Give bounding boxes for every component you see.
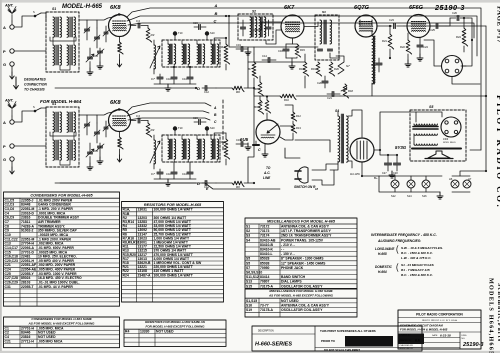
bypass capacitor C11	[187, 77, 193, 79]
svg-text:S2: S2	[246, 229, 250, 233]
svg-text:S5: S5	[246, 257, 250, 261]
tie wire x248	[247, 47, 249, 88]
svg-text:H-660-SERIES: H-660-SERIES	[255, 342, 292, 348]
capacitor C15 top	[199, 25, 201, 30]
dial lamp I1	[391, 180, 399, 188]
grid resistor R3	[146, 123, 151, 137]
ground lead from G	[11, 161, 13, 167]
wires inside speaker box	[416, 112, 442, 117]
svg-text:6K8: 6K8	[110, 5, 121, 11]
bypass capacitor C7	[157, 172, 163, 174]
svg-text:R12: R12	[296, 114, 301, 118]
svg-text:S16: S16	[422, 194, 427, 198]
resistor R6 horizontal	[232, 86, 244, 91]
svg-text:S19: S19	[246, 308, 252, 312]
svg-text:S1,S15: S1,S15	[246, 299, 257, 303]
svg-text:91002-2: 91002-2	[21, 229, 34, 233]
svg-text:83414: 83414	[260, 275, 270, 279]
svg-text:S12: S12	[391, 194, 396, 198]
title block frame	[398, 310, 481, 349]
bus line B row2	[127, 111, 209, 116]
svg-text:DESIGNATES: DESIGNATES	[24, 78, 47, 82]
rectifier tube V5 5Y3G	[350, 138, 374, 162]
svg-text:R1: R1	[221, 45, 225, 49]
speaker plug socket P1	[442, 56, 463, 77]
svg-text:C11: C11	[182, 77, 187, 81]
svg-text:PILOT RADIO CO.: PILOT RADIO CO.	[495, 95, 500, 209]
svg-text:6K7: 6K7	[284, 5, 295, 11]
right edge vertical to lamps	[485, 26, 487, 171]
bus line A row1	[127, 8, 458, 17]
tie wire x254 row1 D to row2	[248, 88, 254, 183]
wires to speaker box	[404, 25, 486, 27]
tuning eye tube 6U5	[256, 120, 280, 144]
wire switch to coil box	[41, 13, 46, 20]
terminal A	[10, 120, 14, 124]
ground lead from G	[11, 66, 13, 72]
IF trimmer T10	[173, 31, 177, 35]
svg-text:PHONE JACK: PHONE JACK	[281, 266, 304, 270]
svg-text:C16: C16	[278, 49, 283, 53]
band switch contact S1	[34, 15, 37, 18]
svg-text:NOT USED: NOT USED	[156, 329, 174, 333]
wires around plug	[424, 40, 442, 66]
svg-text:23487-A: 23487-A	[138, 273, 152, 277]
capacitor C21	[332, 92, 334, 97]
svg-text:RESISTORS FOR MODEL-H-664 SA: RESISTORS FOR MODEL-H-664 SAME AS	[145, 320, 205, 324]
antenna/RF coil assembly box S1	[46, 12, 79, 72]
right edge bus wires	[458, 8, 481, 150]
svg-text:TO CHASSIS: TO CHASSIS	[24, 88, 45, 92]
bus line D with capacitor C12	[55, 182, 196, 184]
svg-text:S: S	[33, 10, 35, 14]
svg-text:R7: R7	[248, 67, 252, 71]
terminal G	[10, 62, 14, 66]
svg-text:S2: S2	[252, 10, 256, 14]
svg-text:22055-T: 22055-T	[21, 285, 35, 289]
wire 6K7 plate	[304, 22, 318, 27]
trimmer C8 small	[104, 127, 108, 129]
svg-text:C25: C25	[430, 28, 435, 32]
speaker socket	[441, 117, 461, 137]
wire D to R6	[216, 182, 232, 184]
svg-text:DWG: DWG	[462, 335, 467, 337]
dashed partition line	[222, 100, 224, 152]
svg-text:MISCELLANEOUS FOR MODEL H-6: MISCELLANEOUS FOR MODEL H-665	[267, 219, 336, 223]
speaker pedestal	[428, 151, 450, 158]
svg-text:S10: S10	[210, 31, 215, 35]
wire coils to grid cap	[79, 115, 97, 123]
svg-text:R4: R4	[125, 329, 129, 333]
plate coupling capacitor C4	[131, 25, 137, 27]
svg-text:S13: S13	[246, 280, 252, 284]
svg-text:C10: C10	[166, 77, 171, 81]
svg-text:ANTENNA COIL & CAN ASS'Y: ANTENNA COIL & CAN ASS'Y	[281, 225, 330, 229]
svg-text:R16: R16	[299, 67, 304, 71]
svg-text:H-664: H-664	[378, 270, 387, 274]
wire S2 to 6K7 grid	[266, 30, 281, 44]
svg-text:73172: 73172	[260, 225, 270, 229]
resistor R8	[258, 82, 263, 96]
mid connector wires	[248, 61, 305, 63]
terminal G	[10, 157, 14, 161]
dwg number box	[459, 332, 461, 349]
transformer secondary leads	[348, 110, 362, 137]
capacitor C26	[457, 16, 459, 21]
svg-text:6K8: 6K8	[110, 100, 121, 106]
svg-text:NO.: NO.	[462, 338, 466, 340]
resistor table H-665	[122, 202, 224, 303]
svg-text:ANT.: ANT.	[4, 99, 14, 103]
svg-text:LINE: LINE	[263, 176, 271, 180]
svg-text:S7: S7	[246, 266, 250, 270]
svg-text:THIS PRINT SUPERSEDES ALL: THIS PRINT SUPERSEDES ALL OTHERS	[320, 329, 376, 333]
svg-text:FOR MODEL H-665 EXCEPT FOLL: FOR MODEL H-665 EXCEPT FOLLOWING	[146, 324, 206, 328]
AVC capacitor C3	[98, 51, 103, 53]
svg-text:C7: C7	[151, 172, 155, 176]
trimmer C2	[95, 37, 100, 39]
svg-text:85038: 85038	[260, 261, 270, 265]
svg-text:A.C.: A.C.	[263, 171, 270, 175]
B+ line to right edge	[340, 95, 486, 97]
svg-text:S.W. - 18 & 6 MEGACYCLES.: S.W. - 18 & 6 MEGACYCLES.	[401, 246, 443, 250]
svg-text:S1: S1	[246, 225, 250, 229]
svg-text:R24: R24	[456, 35, 461, 39]
svg-text:C: C	[214, 19, 217, 24]
bus line B row1	[127, 16, 455, 21]
2nd IF transformer S2 box	[238, 14, 273, 40]
wire B bus into S2	[229, 16, 248, 47]
svg-text:S1: S1	[52, 7, 56, 11]
svg-text:ANT.: ANT.	[4, 4, 14, 8]
svg-text:INTERMEDIATE FREQUENCY - 455: INTERMEDIATE FREQUENCY - 455 K.C.	[371, 233, 437, 237]
svg-text:- -: - -	[281, 248, 284, 252]
svg-text:12" SPEAKER - 1450 OHMS: 12" SPEAKER - 1450 OHMS	[281, 261, 326, 265]
trimmer C8 small	[104, 32, 108, 34]
svg-text:R24: R24	[123, 273, 129, 277]
terminal P	[10, 144, 14, 148]
svg-text:CONNECTION: CONNECTION	[24, 83, 47, 87]
bus line C row1	[128, 23, 450, 25]
resistor R7	[252, 62, 257, 78]
1st IF transformer S2 assembly	[162, 40, 220, 67]
svg-text:- 210 V. -: - 210 V. -	[281, 243, 295, 247]
dial lamp wiring	[362, 162, 379, 176]
svg-text:CONDENSERS FOR MODEL-H-665: CONDENSERS FOR MODEL-H-665	[30, 194, 93, 198]
resistor R16	[303, 62, 308, 76]
resistor R9	[258, 100, 263, 114]
bus line D with capacitor C12	[55, 87, 196, 89]
svg-text:83410-B: 83410-B	[260, 243, 274, 247]
svg-text:T10: T10	[178, 126, 183, 130]
condenser table H-665	[4, 192, 120, 306]
svg-text:G: G	[3, 157, 6, 162]
switch S7	[336, 56, 344, 74]
svg-text:C4: C4	[136, 114, 140, 118]
svg-text:8" SPEAKER - 1300 OHMS: 8" SPEAKER - 1300 OHMS	[281, 257, 324, 261]
svg-text:R13: R13	[296, 126, 301, 130]
svg-text:L.W. - 300 & 175 K.C.: L.W. - 300 & 175 K.C.	[401, 256, 432, 260]
svg-text:G: G	[3, 62, 6, 67]
svg-text:FOR MODEL H-664 & MODEL-H-665: FOR MODEL H-664 & MODEL-H-665	[400, 328, 448, 332]
svg-text:T10: T10	[178, 31, 183, 35]
capacitor C25	[436, 24, 438, 29]
condenser table H-664 differences	[4, 317, 120, 348]
wire coils to grid cap	[79, 20, 97, 28]
svg-text:AS FOR MODEL H-665 EXCEPT FOLL: AS FOR MODEL H-665 EXCEPT FOLLOWING	[268, 293, 334, 297]
secondary lead wires	[214, 38, 226, 44]
IF trimmer S10	[205, 126, 209, 130]
svg-text:B+: B+	[374, 176, 378, 180]
band switch contact S1	[34, 110, 37, 113]
cathode resistor R2	[119, 132, 121, 138]
svg-text:73174: 73174	[260, 234, 270, 238]
cathode resistor R2	[119, 37, 121, 43]
svg-text:OSCILLATOR COIL ASS'Y: OSCILLATOR COIL ASS'Y	[281, 284, 323, 288]
svg-text:MISCELLANEOUS FOR MODEL H-660: MISCELLANEOUS FOR MODEL H-660 SAME	[269, 289, 333, 293]
6U5 cathode cap C	[253, 144, 259, 146]
svg-text:TRACED BY: TRACED BY	[400, 339, 413, 342]
svg-text:R.R.: R.R.	[415, 339, 421, 343]
svg-text:MODELS H664,H665: MODELS H664,H665	[488, 278, 495, 353]
svg-text:13031: 13031	[138, 208, 148, 212]
svg-text:C12: C12	[204, 90, 209, 94]
pilot lamp H6	[451, 180, 459, 188]
capacitor C19	[241, 142, 243, 147]
svg-text:P: P	[3, 49, 6, 54]
svg-text:B.C. - 1500 & 800 K.C.: B.C. - 1500 & 800 K.C.	[401, 273, 433, 277]
svg-text:C27: C27	[382, 172, 387, 175]
cathode capacitor C24	[417, 45, 423, 47]
svg-text:FOR MODEL H-664: FOR MODEL H-664	[40, 99, 82, 104]
filter capacitors C27 C28	[385, 163, 392, 165]
wire A to band switch	[14, 16, 34, 27]
wires S3b	[330, 53, 340, 58]
coupling capacitor C23	[394, 24, 396, 29]
svg-text:BAND SWITCH: BAND SWITCH	[281, 275, 306, 279]
trimmer capacitors in S2	[241, 27, 246, 29]
svg-text:SWITCH ON R: SWITCH ON R	[294, 185, 316, 189]
svg-text:1903 TO 1919 ST. L.I.C. N. Y: 1903 TO 1919 ST. L.I.C. N. Y. U.S.A.	[422, 319, 458, 322]
svg-text:C11: C11	[182, 172, 187, 176]
svg-text:S1 - 24 MEGACYCLES: S1 - 24 MEGACYCLES	[401, 263, 435, 267]
dial lamp I2	[407, 180, 415, 188]
trimmer C2	[95, 132, 100, 134]
wire D to R6	[216, 87, 232, 89]
svg-text:R6: R6	[236, 90, 240, 94]
resistor R20	[329, 62, 334, 76]
bypass capacitor C7	[157, 77, 163, 79]
svg-text:TO: TO	[266, 166, 271, 170]
svg-text:C31: C31	[5, 285, 11, 289]
wire 6Q7G plate to C23	[377, 25, 392, 27]
resistor R21	[388, 34, 393, 49]
svg-text:P: P	[3, 144, 6, 149]
dial lamp I3	[422, 180, 430, 188]
output transformer primary coil	[372, 36, 374, 84]
svg-text:AS FOR MODEL H-665 EXCEPT F: AS FOR MODEL H-665 EXCEPT FOLLOWING	[28, 321, 96, 325]
bus line C row2	[128, 118, 210, 120]
oscillator coil L5	[154, 140, 156, 164]
svg-text:H6: H6	[449, 177, 453, 181]
terminal A	[10, 25, 14, 29]
change record box	[252, 326, 422, 351]
gang condenser section C2a	[88, 57, 93, 59]
svg-text:73-77: 73-77	[260, 304, 269, 308]
capacitor C15 top	[199, 120, 201, 125]
speaker output transformer windings	[414, 124, 437, 125]
svg-text:R18: R18	[348, 89, 353, 93]
wire 6U5 region to transformer	[295, 140, 330, 152]
svg-text:R3: R3	[151, 128, 155, 132]
svg-text:25190-3: 25190-3	[434, 3, 465, 12]
svg-text:C4: C4	[136, 19, 140, 23]
padder trimmer C1	[85, 29, 90, 31]
IF trimmer T10	[173, 126, 177, 130]
svg-text:A: A	[3, 120, 6, 125]
grid resistor R22	[406, 40, 411, 54]
wire mid	[253, 47, 255, 54]
AC plug	[298, 167, 308, 183]
svg-text:C7: C7	[151, 77, 155, 81]
miscellaneous table H-665	[245, 218, 357, 288]
padder trimmer C1	[85, 124, 90, 126]
svg-text:S10: S10	[210, 126, 215, 130]
svg-text:R3: R3	[151, 33, 155, 37]
svg-text:B: B	[215, 11, 218, 16]
gang condenser section C2a	[88, 152, 93, 154]
speaker field coil	[414, 144, 437, 145]
bus line E row2	[60, 183, 280, 189]
svg-text:C3: C3	[94, 54, 98, 58]
svg-text:13330: 13330	[140, 329, 150, 333]
svg-text:H-665: H-665	[378, 252, 387, 256]
resistors R12 R13	[291, 112, 296, 121]
wire P to coil box	[14, 145, 46, 147]
svg-text:R9: R9	[254, 105, 258, 109]
svg-text:.005 MFD MICA: .005 MFD MICA	[38, 339, 63, 343]
svg-text:S3: S3	[246, 234, 250, 238]
resistor R11 at 6U5	[265, 100, 270, 113]
svg-text:73173: 73173	[260, 229, 270, 233]
svg-text:S4: S4	[246, 238, 250, 242]
svg-text:S7: S7	[346, 64, 350, 68]
svg-text:100,000 OHMS 1/4 WATT: 100,000 OHMS 1/4 WATT	[154, 273, 194, 277]
svg-text:C21: C21	[5, 339, 11, 343]
svg-text:ANTENNA COIL & CAN ASS'Y: ANTENNA COIL & CAN ASS'Y	[281, 304, 330, 308]
svg-text:C23: C23	[389, 18, 394, 22]
svg-text:70950: 70950	[260, 266, 270, 270]
svg-text:LONG-WAVE: LONG-WAVE	[375, 247, 395, 251]
svg-text:S5: S5	[246, 261, 250, 265]
svg-text:RESISTORS FOR MODEL-H-665: RESISTORS FOR MODEL-H-665	[144, 203, 202, 207]
resistor R6 horizontal	[232, 181, 244, 186]
svg-text:OSCILLATOR COIL ASS'Y: OSCILLATOR COIL ASS'Y	[281, 308, 323, 312]
svg-text:S16: S16	[246, 304, 252, 308]
svg-text:R19: R19	[311, 67, 316, 71]
svg-text:A: A	[214, 3, 218, 8]
grid cap lead	[118, 13, 120, 15]
svg-text:D: D	[197, 181, 200, 186]
svg-text:A: A	[213, 106, 217, 110]
svg-text:CHECKED BY: CHECKED BY	[400, 345, 414, 347]
svg-text:C21: C21	[327, 96, 332, 100]
svg-text:DESCRIPTION: DESCRIPTION	[258, 331, 274, 333]
svg-text:B.C. - 1500 & 600 K.C.: B.C. - 1500 & 600 K.C.	[401, 251, 433, 255]
capacitor C19	[241, 47, 243, 52]
grid resistor R3	[146, 28, 151, 42]
svg-text:83410-K: 83410-K	[260, 248, 274, 252]
6K7 cathode resistor R15 and capacitor C16	[292, 38, 294, 44]
svg-text:DIAL LAMPS: DIAL LAMPS	[281, 280, 302, 284]
svg-text:NOT USED: NOT USED	[281, 299, 299, 303]
svg-text:R20: R20	[334, 67, 339, 71]
3rd IF transformer S3b box	[315, 15, 339, 60]
antenna/RF coil assembly box S1	[46, 107, 79, 167]
svg-text:S4: S4	[335, 109, 339, 113]
svg-text:110-115V: 110-115V	[350, 173, 360, 176]
svg-text:S14: S14	[407, 194, 412, 198]
svg-text:DO NOT SCALE THIS PRINT: DO NOT SCALE THIS PRINT	[324, 348, 360, 352]
svg-text:C26: C26	[452, 11, 457, 15]
1st IF transformer S2 assembly	[162, 135, 220, 162]
ground dial lamps	[437, 192, 443, 199]
svg-text:R10: R10	[284, 98, 289, 102]
svg-text:SPKR. FIELD: SPKR. FIELD	[443, 142, 456, 144]
svg-text:100,000 OHMS 1/4 WATT: 100,000 OHMS 1/4 WATT	[154, 208, 194, 212]
svg-text:APPROVED BY: APPROVED BY	[400, 347, 414, 350]
svg-text:1300: 1300	[443, 139, 449, 141]
svg-text:C20: C20	[317, 81, 322, 85]
grid resistor R1	[224, 139, 229, 159]
junction dots	[225, 37, 227, 39]
svg-text:CONDENSERS FOR MODEL H-664: CONDENSERS FOR MODEL H-664 SAME	[31, 317, 92, 321]
svg-text:- 150 V. -: - 150 V. -	[281, 252, 295, 256]
svg-text:C19: C19	[236, 43, 241, 47]
scan edge bottom	[0, 351, 500, 353]
svg-text:5Y3G: 5Y3G	[395, 145, 407, 150]
oscillator coil L5	[154, 45, 156, 69]
svg-text:A: A	[3, 25, 6, 30]
svg-text:DOMESTIC: DOMESTIC	[375, 265, 393, 269]
wire A to band switch	[14, 111, 34, 122]
svg-text:POWER TRANS. 105-125V: POWER TRANS. 105-125V	[281, 238, 324, 242]
speaker assembly S5 box	[410, 110, 466, 161]
volume control R18	[343, 84, 348, 98]
6Q7G diode plates	[360, 20, 372, 26]
svg-text:6U5: 6U5	[240, 137, 249, 142]
svg-text:2ND I.F. TRANSFORMER ASS'Y: 2ND I.F. TRANSFORMER ASS'Y	[281, 234, 332, 238]
svg-text:C14: C14	[262, 54, 267, 58]
wires plug to transformer	[312, 164, 338, 170]
svg-text:85028: 85028	[260, 257, 270, 261]
svg-text:S11,S12: S11,S12	[246, 275, 259, 279]
svg-text:.01 MFD. 44 V. PAPER: .01 MFD. 44 V. PAPER	[38, 285, 73, 289]
miscellaneous table H-660 differences	[245, 289, 357, 317]
svg-text:ALIGNING FREQUENCIES:: ALIGNING FREQUENCIES:	[377, 239, 421, 243]
6K7 grid wire	[254, 22, 281, 30]
svg-text:Schematic,Parts: Schematic,Parts	[496, 283, 500, 342]
wire switch to coil box	[41, 108, 46, 115]
svg-text:DRAWN BY: DRAWN BY	[400, 334, 412, 337]
svg-text:73178-A: 73178-A	[260, 308, 274, 312]
svg-text:PRIOR TO: PRIOR TO	[321, 339, 336, 343]
grid cap lead	[118, 108, 120, 110]
svg-text:B1 - 7 MEGACY-115: B1 - 7 MEGACY-115	[401, 268, 430, 272]
capacitor C20	[322, 81, 328, 83]
pilot lamp wires	[452, 175, 470, 177]
AVC capacitor C3	[98, 146, 103, 148]
